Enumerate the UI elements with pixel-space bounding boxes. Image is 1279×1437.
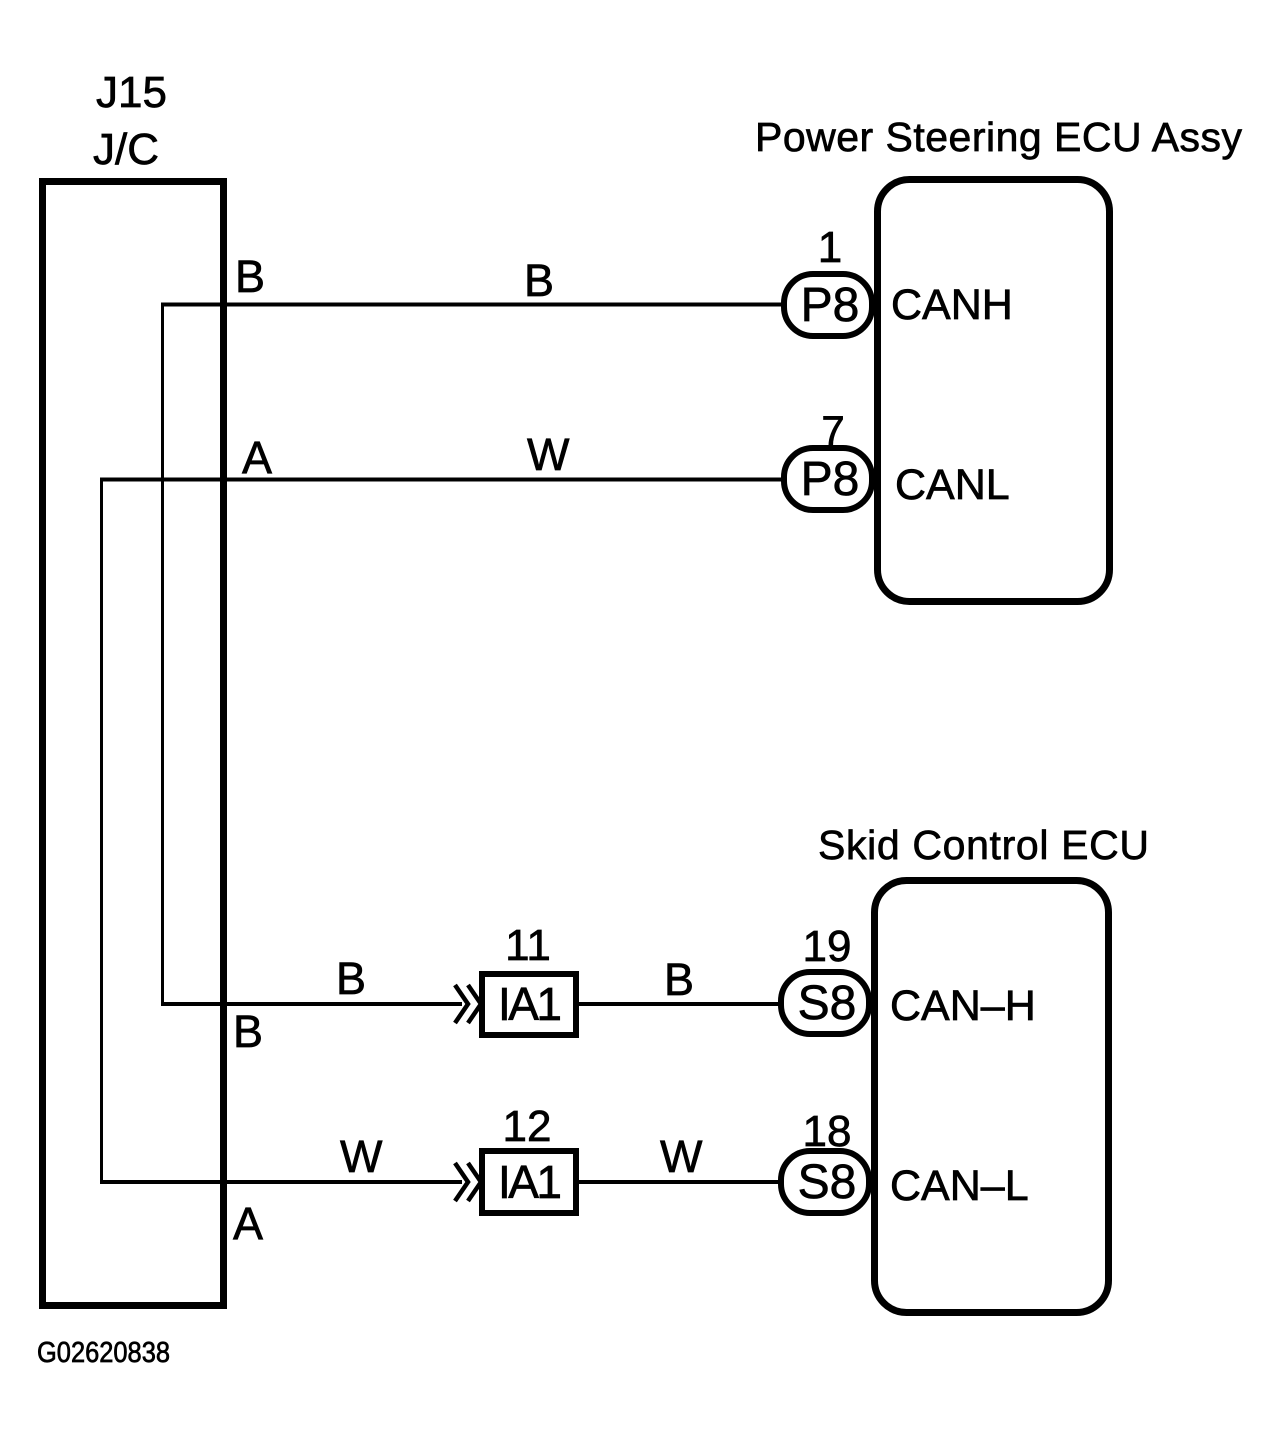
svg-text:12: 12 [503,1102,552,1151]
svg-text:G02620838: G02620838 [37,1337,170,1369]
svg-text:CAN–H: CAN–H [890,982,1036,1030]
svg-text:B: B [233,1006,263,1057]
svg-text:B: B [524,255,554,306]
svg-text:A: A [242,432,272,483]
svg-text:7: 7 [821,407,844,454]
svg-text:IA1: IA1 [498,1156,562,1208]
svg-text:CANL: CANL [895,461,1010,509]
svg-text:Power Steering ECU Assy: Power Steering ECU Assy [755,114,1243,160]
svg-text:IA1: IA1 [498,978,562,1030]
svg-text:Skid Control ECU: Skid Control ECU [818,822,1149,868]
svg-text:11: 11 [505,921,551,970]
svg-text:B: B [336,953,366,1004]
svg-text:CAN–L: CAN–L [890,1162,1029,1210]
svg-text:P8: P8 [801,279,860,332]
svg-text:S8: S8 [798,1156,857,1209]
svg-text:W: W [340,1131,383,1182]
svg-text:1: 1 [818,223,842,272]
svg-text:B: B [235,251,265,302]
svg-text:P8: P8 [801,453,860,506]
svg-text:W: W [527,429,570,480]
svg-text:19: 19 [803,922,852,971]
svg-text:S8: S8 [798,977,857,1030]
svg-text:18: 18 [803,1107,852,1156]
svg-text:J15: J15 [96,68,167,117]
svg-text:CANH: CANH [891,281,1013,329]
svg-text:W: W [660,1131,703,1182]
svg-text:B: B [664,954,694,1005]
svg-text:J/C: J/C [93,125,159,174]
svg-text:A: A [233,1198,263,1249]
